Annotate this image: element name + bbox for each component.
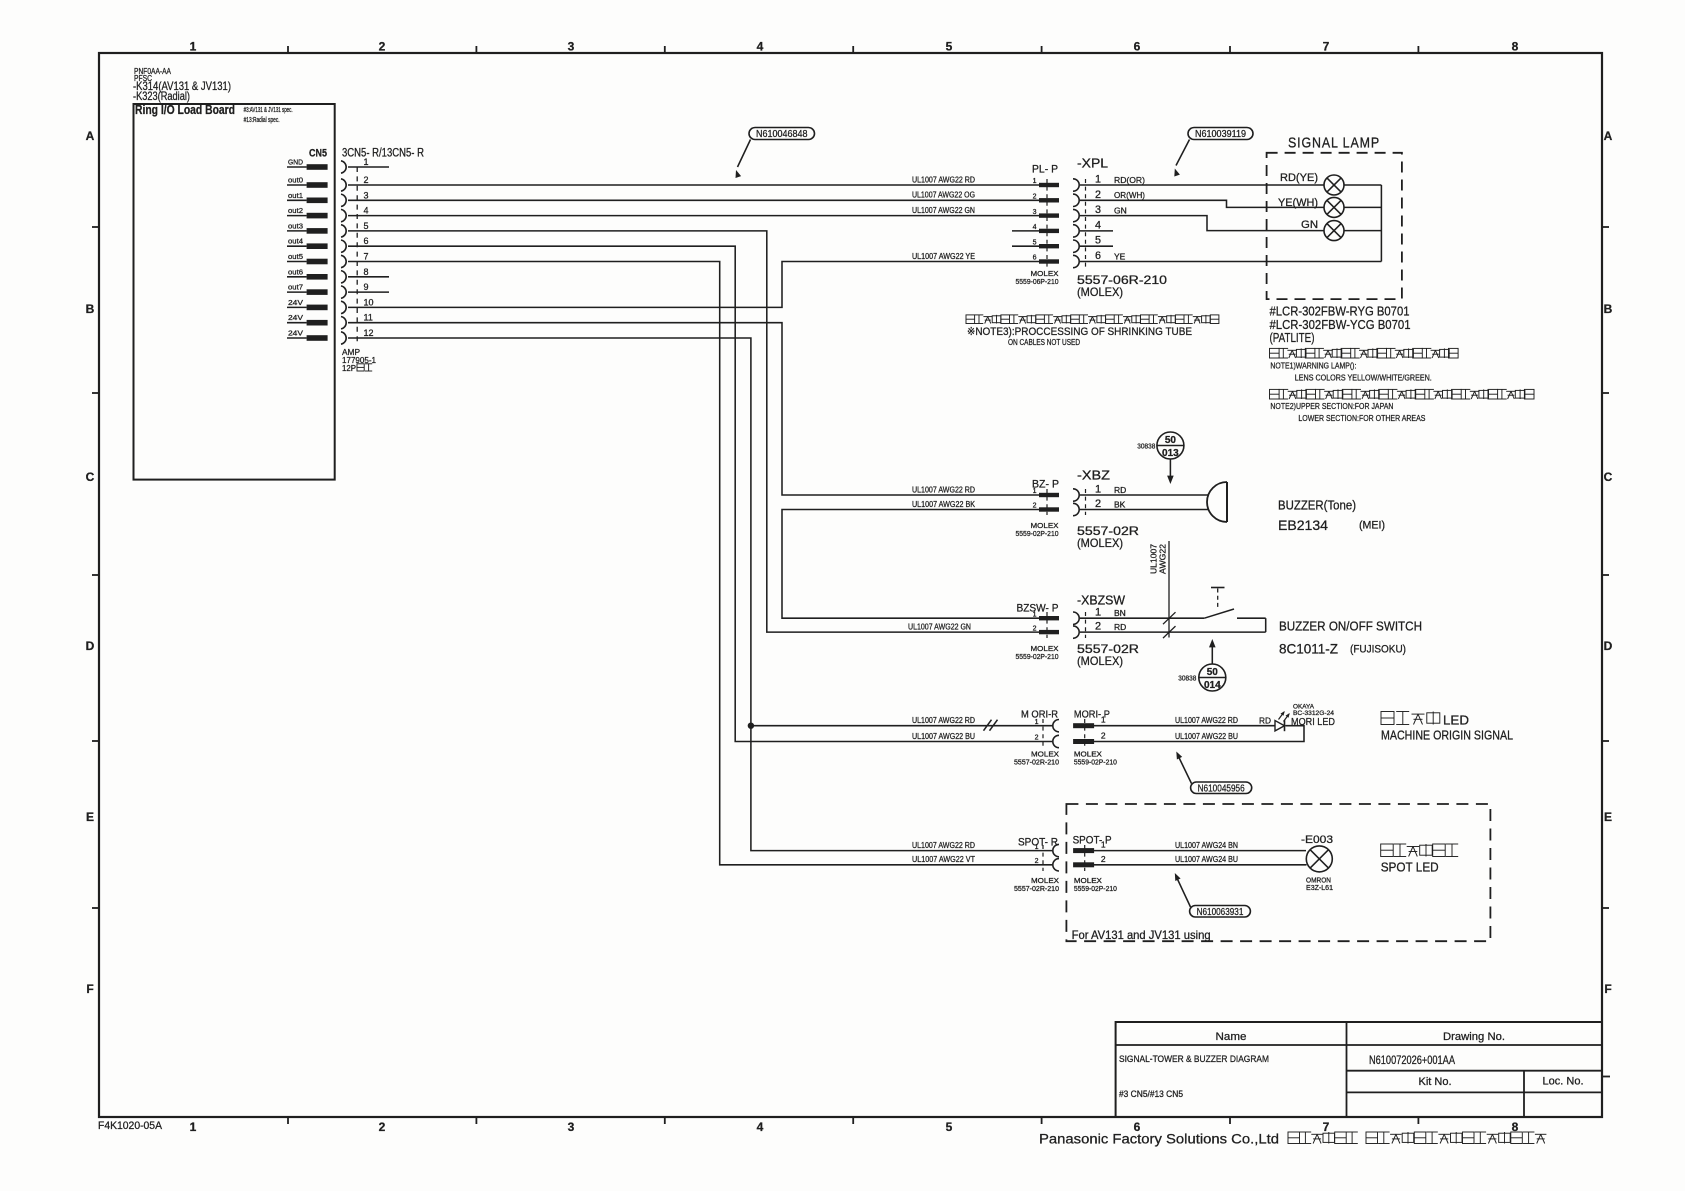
svg-text:B: B xyxy=(1604,302,1613,316)
svg-text:UL1007 AWG22 RD: UL1007 AWG22 RD xyxy=(912,485,975,494)
title block xyxy=(1116,1022,1602,1117)
svg-text:out2: out2 xyxy=(288,206,303,215)
svg-text:2: 2 xyxy=(1101,731,1106,741)
drawing border frame xyxy=(99,53,1602,1117)
svg-text:8: 8 xyxy=(1512,40,1519,54)
svg-text:1: 1 xyxy=(1095,484,1101,496)
svg-text:-XPL: -XPL xyxy=(1077,157,1108,171)
svg-text:1: 1 xyxy=(1101,840,1106,850)
note1 (Japanese) xyxy=(1270,348,1280,358)
svg-text:(FUJISOKU): (FUJISOKU) xyxy=(1350,644,1406,656)
svg-text:UL1007 AWG24 BN: UL1007 AWG24 BN xyxy=(1175,841,1238,850)
svg-text:MACHINE ORIGIN SIGNAL: MACHINE ORIGIN SIGNAL xyxy=(1381,729,1513,743)
svg-text:Panasonic Factory Solutions: Panasonic Factory Solutions Co.,Ltd xyxy=(1039,1132,1279,1147)
label circle 50/014 xyxy=(1199,664,1226,691)
wire CN5.11 to BZ-P.1 (RD) xyxy=(348,323,1040,495)
svg-text:UL1007 AWG22 BU: UL1007 AWG22 BU xyxy=(1175,732,1238,741)
svg-text:1: 1 xyxy=(190,1120,197,1134)
wire CN5 pin1 stub xyxy=(348,166,389,168)
svg-text:N610039119: N610039119 xyxy=(1195,129,1246,140)
svg-text:out3: out3 xyxy=(288,221,303,230)
svg-text:BUZZER ON/OFF SWITCH: BUZZER ON/OFF SWITCH xyxy=(1279,619,1422,634)
svg-text:B: B xyxy=(86,302,95,316)
label N610039119 xyxy=(1188,128,1253,140)
svg-text:UL1007 AWG22 BU: UL1007 AWG22 BU xyxy=(912,732,975,741)
svg-text:5: 5 xyxy=(946,40,953,54)
svg-text:E: E xyxy=(86,810,94,824)
svg-text:F: F xyxy=(1604,982,1611,996)
svg-text:UL1007 AWG22 RD: UL1007 AWG22 RD xyxy=(912,841,975,850)
wire CN5.3 to PL-P.2 (OG) xyxy=(348,199,1039,201)
svg-text:5: 5 xyxy=(946,1120,953,1134)
svg-text:A: A xyxy=(86,129,95,143)
svg-text:6: 6 xyxy=(364,236,369,246)
svg-text:BZSW- P: BZSW- P xyxy=(1017,603,1059,615)
svg-text:1: 1 xyxy=(1101,715,1106,725)
svg-text:3: 3 xyxy=(568,40,575,54)
svg-text:out6: out6 xyxy=(288,267,303,276)
wire CN5.2 to PL-P.1 (RD) xyxy=(348,184,1039,186)
svg-text:1: 1 xyxy=(1035,719,1039,726)
svg-text:BK: BK xyxy=(1114,499,1126,509)
lamp wires into box xyxy=(1080,184,1324,186)
svg-text:E: E xyxy=(1604,810,1612,824)
svg-text:50: 50 xyxy=(1165,435,1177,446)
svg-text:N610072026+001AA: N610072026+001AA xyxy=(1369,1053,1455,1067)
svg-text:4: 4 xyxy=(1033,224,1037,231)
svg-text:-XBZ: -XBZ xyxy=(1077,469,1110,483)
3CN5-R connector dashed line xyxy=(356,167,358,343)
svg-text:UL1007: UL1007 xyxy=(1150,543,1159,574)
svg-text:MORI LED: MORI LED xyxy=(1291,717,1335,728)
svg-text:SPOT LED: SPOT LED xyxy=(1381,860,1439,875)
SPOT dashed option box xyxy=(1066,804,1490,941)
svg-text:N610045956: N610045956 xyxy=(1198,783,1245,794)
svg-text:LOWER SECTION:FOR OTHER ARE: LOWER SECTION:FOR OTHER AREAS xyxy=(1298,413,1425,423)
svg-text:2: 2 xyxy=(1033,625,1037,632)
svg-text:7: 7 xyxy=(1323,1120,1330,1134)
XPL pin4,5 unused stubs xyxy=(1080,230,1113,232)
buzzer EB2134 symbol xyxy=(1226,482,1228,522)
svg-text:OR(WH): OR(WH) xyxy=(1114,190,1145,200)
svg-text:50: 50 xyxy=(1207,667,1219,678)
label N610046848 xyxy=(749,128,815,140)
svg-text:5559-02P-210: 5559-02P-210 xyxy=(1016,652,1059,661)
svg-text:UL1007 AWG22 GN: UL1007 AWG22 GN xyxy=(908,623,971,632)
svg-text:(MEI): (MEI) xyxy=(1359,520,1385,532)
column tick marks top/bottom xyxy=(287,46,289,54)
svg-text:-E003: -E003 xyxy=(1301,834,1333,846)
svg-text:LENS COLORS YELLOW/WHITE/GRE: LENS COLORS YELLOW/WHITE/GREEN. xyxy=(1295,372,1432,382)
wire CN5.5 to BZSW-P.2 (GN) xyxy=(348,231,1040,632)
svg-text:#3 CN5/#13 CN5: #3 CN5/#13 CN5 xyxy=(1119,1089,1183,1099)
svg-text:4: 4 xyxy=(757,1120,764,1134)
svg-text:(MOLEX): (MOLEX) xyxy=(1077,654,1123,668)
svg-text:014: 014 xyxy=(1204,680,1221,691)
Ring I/O Load Board box xyxy=(134,104,335,480)
svg-text:RD: RD xyxy=(1114,622,1126,632)
svg-text:6: 6 xyxy=(1095,250,1101,262)
svg-text:2: 2 xyxy=(1095,498,1101,510)
PL-P pin4,5 unused stubs xyxy=(1012,230,1039,232)
svg-text:4: 4 xyxy=(757,40,764,54)
svg-text:Loc. No.: Loc. No. xyxy=(1543,1076,1584,1088)
svg-text:2: 2 xyxy=(1035,735,1039,742)
svg-text:out0: out0 xyxy=(288,176,303,185)
svg-text:For AV131 and JV131 using: For AV131 and JV131 using xyxy=(1072,928,1211,942)
svg-text:12P: 12P xyxy=(342,364,356,373)
wire CN5.7 to SPOT-R.2 (VT) xyxy=(348,262,1052,865)
SPOT LED wires xyxy=(1094,850,1306,852)
svg-text:7: 7 xyxy=(364,252,369,262)
svg-text:UL1007 AWG24 BU: UL1007 AWG24 BU xyxy=(1175,855,1238,864)
switch 8C1011-Z wires xyxy=(1080,617,1204,619)
svg-text:GN: GN xyxy=(1301,219,1318,231)
svg-text:5559-06P-210: 5559-06P-210 xyxy=(1016,277,1059,286)
wire BZ-P.2 to BZSW-P.1 series link xyxy=(782,510,1040,619)
svg-text:5559-02P-210: 5559-02P-210 xyxy=(1074,884,1117,893)
svg-text:013: 013 xyxy=(1162,448,1179,459)
svg-text:C: C xyxy=(86,470,95,484)
svg-text:30838: 30838 xyxy=(1178,676,1196,683)
svg-text:1: 1 xyxy=(1095,174,1101,186)
svg-text:5557-02R-210: 5557-02R-210 xyxy=(1014,758,1059,767)
svg-text:UL1007 AWG22 OG: UL1007 AWG22 OG xyxy=(912,191,975,200)
wire CN5.12 to MORI-R.1 / SPOT-R.1 (RD 24V) xyxy=(348,338,1052,851)
svg-text:4: 4 xyxy=(1095,219,1101,231)
svg-text:RD: RD xyxy=(1114,485,1126,495)
svg-text:A: A xyxy=(1604,129,1613,143)
svg-text:BC-3312G-24: BC-3312G-24 xyxy=(1293,710,1334,717)
svg-text:3: 3 xyxy=(568,1120,575,1134)
machine origin signal label (Japanese) xyxy=(1381,712,1394,725)
svg-text:(MOLEX): (MOLEX) xyxy=(1077,536,1123,550)
svg-text:2: 2 xyxy=(379,40,386,54)
svg-text:8: 8 xyxy=(364,267,369,277)
svg-text:※NOTE3):PROCCESSING OF SHRINKI: ※NOTE3):PROCCESSING OF SHRINKING TUBE xyxy=(967,326,1192,338)
svg-text:7: 7 xyxy=(1323,40,1330,54)
svg-text:2: 2 xyxy=(1033,503,1037,510)
svg-text:out1: out1 xyxy=(288,191,303,200)
svg-text:RD: RD xyxy=(1259,717,1271,726)
svg-text:6: 6 xyxy=(1033,255,1037,262)
svg-text:5559-02P-210: 5559-02P-210 xyxy=(1016,529,1059,538)
junction dot 24V branch xyxy=(748,723,754,729)
svg-text:SIGNAL LAMP: SIGNAL LAMP xyxy=(1288,136,1380,152)
svg-text:2: 2 xyxy=(1035,858,1039,865)
svg-text:3: 3 xyxy=(364,190,369,200)
signal lamp dashed box xyxy=(1267,153,1402,299)
svg-text:NOTE2)UPPER SECTION:FOR JAPA: NOTE2)UPPER SECTION:FOR JAPAN xyxy=(1270,401,1393,411)
svg-text:3: 3 xyxy=(1033,209,1037,216)
svg-text:2: 2 xyxy=(1101,854,1106,864)
svg-text:UL1007 AWG22 YE: UL1007 AWG22 YE xyxy=(912,252,975,261)
MORI LED wires xyxy=(1094,725,1275,727)
svg-text:LED: LED xyxy=(1443,713,1469,728)
svg-text:(MOLEX): (MOLEX) xyxy=(1077,285,1123,299)
svg-text:GND: GND xyxy=(288,158,304,167)
svg-text:CN5: CN5 xyxy=(309,148,327,160)
svg-text:5559-02P-210: 5559-02P-210 xyxy=(1074,758,1117,767)
svg-text:3CN5- R/13CN5- R: 3CN5- R/13CN5- R xyxy=(342,148,424,160)
wire CN5.6 to MORI-R.2 (BU) xyxy=(348,246,1052,741)
svg-text:UL1007 AWG22 RD: UL1007 AWG22 RD xyxy=(912,716,975,725)
svg-text:5: 5 xyxy=(1095,235,1101,247)
svg-text:30838: 30838 xyxy=(1137,444,1155,451)
svg-text:UL1007 AWG22 RD: UL1007 AWG22 RD xyxy=(1175,716,1238,725)
switch actuator (dashed) xyxy=(1211,587,1225,589)
svg-text:Ring I/O Load Board: Ring I/O Load Board xyxy=(135,103,235,117)
svg-text:8C1011-Z: 8C1011-Z xyxy=(1279,641,1338,657)
svg-text:#3:AV131 & JV131 spec.: #3:AV131 & JV131 spec. xyxy=(244,107,293,114)
svg-text:2: 2 xyxy=(364,175,369,185)
svg-text:2: 2 xyxy=(1033,194,1037,201)
spot led label (Japanese) xyxy=(1381,844,1394,857)
svg-text:EB2134: EB2134 xyxy=(1278,517,1328,533)
svg-text:Name: Name xyxy=(1216,1031,1247,1043)
row tick marks left/right xyxy=(92,226,100,228)
switch blade xyxy=(1204,609,1234,618)
svg-text:2: 2 xyxy=(1095,621,1101,633)
svg-text:E3Z-L61: E3Z-L61 xyxy=(1306,885,1333,892)
svg-text:-K323(Radial): -K323(Radial) xyxy=(133,89,190,103)
svg-text:SPOT- P: SPOT- P xyxy=(1073,835,1112,847)
svg-text:N610063931: N610063931 xyxy=(1197,907,1244,918)
3CN5-R receptacle arcs and pin numbers xyxy=(341,161,346,173)
svg-text:ON CABLES NOT USED: ON CABLES NOT USED xyxy=(1008,338,1080,347)
svg-text:N610046848: N610046848 xyxy=(756,129,808,140)
svg-text:11: 11 xyxy=(364,313,373,323)
svg-text:1: 1 xyxy=(1033,611,1037,618)
svg-text:1: 1 xyxy=(1035,844,1039,851)
svg-text:SIGNAL-TOWER & BUZZER DIAGRAM: SIGNAL-TOWER & BUZZER DIAGRAM xyxy=(1119,1054,1269,1065)
svg-text:F: F xyxy=(86,982,93,996)
svg-text:2: 2 xyxy=(379,1120,386,1134)
svg-text:6: 6 xyxy=(1134,40,1141,54)
wire CN5.4 to PL-P.3 (GN) xyxy=(348,215,1039,217)
svg-text:5: 5 xyxy=(364,221,369,231)
LED MORI (diode symbol) xyxy=(1275,721,1285,731)
svg-text:5557-02R-210: 5557-02R-210 xyxy=(1014,884,1059,893)
svg-text:UL1007 AWG22 VT: UL1007 AWG22 VT xyxy=(912,855,975,864)
wire CN5 pin9 stub xyxy=(348,291,389,293)
cable break marks // xyxy=(984,720,992,731)
svg-text:1: 1 xyxy=(1033,488,1037,495)
svg-text:out4: out4 xyxy=(288,237,303,246)
svg-text:UL1007 AWG22 GN: UL1007 AWG22 GN xyxy=(912,206,975,215)
wire CN5 pin8 stub xyxy=(348,276,389,278)
bundle slash marks xyxy=(1163,612,1176,624)
svg-text:9: 9 xyxy=(364,282,369,292)
svg-text:1: 1 xyxy=(364,157,369,167)
svg-text:3: 3 xyxy=(1095,204,1101,216)
svg-text:F4K1020-05A: F4K1020-05A xyxy=(98,1120,163,1132)
svg-text:YE(WH): YE(WH) xyxy=(1278,197,1318,209)
svg-text:BN: BN xyxy=(1114,608,1126,618)
label circle 50/013 xyxy=(1157,432,1184,459)
svg-text:AWG22: AWG22 xyxy=(1159,543,1168,574)
svg-text:D: D xyxy=(1604,639,1613,653)
svg-text:5: 5 xyxy=(1033,239,1037,246)
lamp return bus xyxy=(1080,261,1381,263)
svg-text:out5: out5 xyxy=(288,252,303,261)
svg-text:D: D xyxy=(86,639,95,653)
label N610045956 xyxy=(1191,782,1252,794)
svg-text:1: 1 xyxy=(190,40,197,54)
svg-text:YE: YE xyxy=(1114,251,1126,261)
svg-text:Kit No.: Kit No. xyxy=(1419,1076,1452,1088)
svg-text:#13:Radial spec.: #13:Radial spec. xyxy=(244,117,280,124)
svg-text:UL1007 AWG22 BK: UL1007 AWG22 BK xyxy=(912,500,976,509)
wire CN5.10 to PL-P.6 (YE) xyxy=(348,262,1039,308)
svg-text:(PATLITE): (PATLITE) xyxy=(1270,330,1315,345)
svg-text:24V: 24V xyxy=(288,329,303,338)
svg-text:1: 1 xyxy=(1033,178,1037,185)
cable bundle line UL1007 AWG22 xyxy=(1168,541,1170,638)
svg-text:1: 1 xyxy=(1095,607,1101,619)
svg-text:RD(YE): RD(YE) xyxy=(1280,172,1318,184)
svg-text:PL- P: PL- P xyxy=(1032,164,1058,176)
svg-text:out7: out7 xyxy=(288,283,303,292)
svg-text:BUZZER(Tone): BUZZER(Tone) xyxy=(1278,498,1356,513)
svg-text:4: 4 xyxy=(364,206,369,216)
svg-text:10: 10 xyxy=(364,297,374,307)
svg-text:NOTE1)WARNING LAMP():: NOTE1)WARNING LAMP(): xyxy=(1270,361,1356,371)
svg-text:2: 2 xyxy=(1095,189,1101,201)
svg-text:UL1007 AWG22 RD: UL1007 AWG22 RD xyxy=(912,175,975,184)
svg-text:Drawing No.: Drawing No. xyxy=(1443,1031,1505,1043)
svg-text:24V: 24V xyxy=(288,298,303,307)
svg-text:12: 12 xyxy=(364,328,374,338)
label N610063931 xyxy=(1190,906,1251,918)
svg-text:C: C xyxy=(1604,470,1613,484)
buzzer wires xyxy=(1080,494,1209,496)
svg-text:GN: GN xyxy=(1114,205,1127,215)
svg-text:OMRON: OMRON xyxy=(1306,878,1331,885)
note3 shrink tube (Japanese) xyxy=(966,315,975,324)
svg-text:-XBZSW: -XBZSW xyxy=(1077,594,1125,608)
svg-text:24V: 24V xyxy=(288,313,303,322)
svg-text:M ORI-R: M ORI-R xyxy=(1021,709,1058,721)
svg-text:RD(OR): RD(OR) xyxy=(1114,175,1145,185)
note2 (Japanese) xyxy=(1270,389,1280,399)
